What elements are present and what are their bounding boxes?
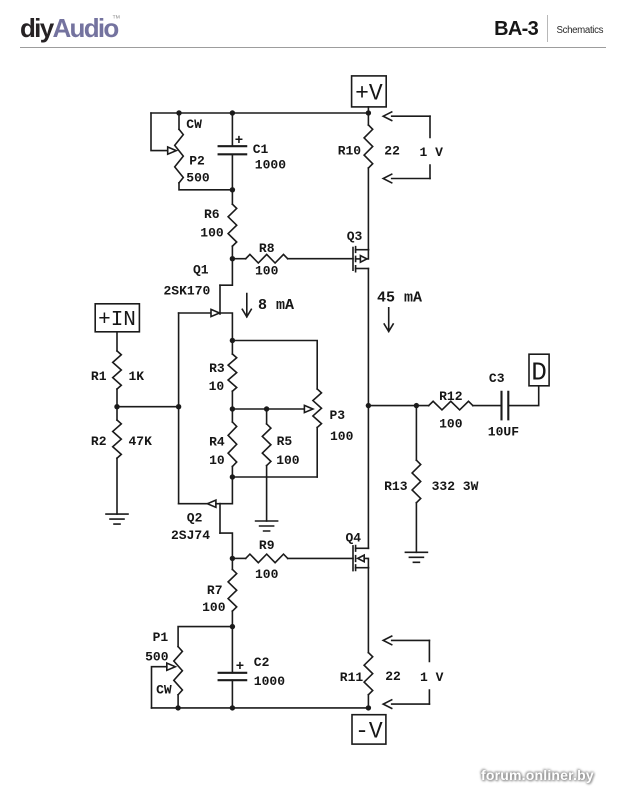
wire node to P3 top [232, 341, 317, 390]
P2 wiper arrow [168, 147, 177, 154]
label 1000 (C1) [255, 157, 286, 172]
resistor R3 [228, 341, 237, 410]
label CW (P2) [186, 117, 202, 132]
potentiometer P2 [175, 113, 233, 190]
svg-text:R6: R6 [204, 207, 220, 222]
label 100 (R12) [439, 417, 463, 432]
wire C3 to D box [508, 386, 538, 406]
label C2 [254, 655, 270, 670]
capacitor C2 [219, 627, 247, 708]
node R5 top junction [264, 406, 269, 411]
node top-rail / +V junction [366, 110, 371, 115]
svg-text:R2: R2 [91, 434, 107, 449]
node R6/R8/Q1 junction [230, 256, 235, 261]
resistor R8 [246, 254, 288, 263]
node C2 bottom junction [230, 705, 235, 710]
label C1 [253, 142, 269, 157]
wire Q1 drain [220, 259, 232, 286]
node R7/P1/C2 junction [230, 624, 235, 629]
svg-text:R9: R9 [259, 538, 275, 553]
label 1 V (R11) [420, 670, 444, 685]
svg-text:R4: R4 [209, 435, 225, 450]
label P3 [330, 408, 346, 423]
label 100 (R9) [255, 567, 279, 582]
label Q2 [187, 511, 203, 526]
svg-text:100: 100 [202, 600, 226, 615]
label 100 (P3) [330, 429, 354, 444]
label R1 [91, 369, 107, 384]
svg-text:100: 100 [255, 567, 279, 582]
label R7 [207, 583, 223, 598]
label R11 [340, 670, 364, 685]
current arrow 45 mA [384, 308, 393, 332]
svg-text:45 mA: 45 mA [377, 290, 422, 307]
svg-text:10: 10 [209, 379, 225, 394]
node top-rail / P2 CW junction [176, 110, 181, 115]
label R8 [259, 241, 275, 256]
wire P1 wiper [152, 667, 167, 708]
svg-text:C3: C3 [489, 371, 505, 386]
svg-text:C1: C1 [253, 142, 269, 157]
wire mid node to P3 wiper [232, 408, 304, 410]
label Q1 [193, 263, 209, 278]
label 332 3W (R13) [432, 479, 479, 494]
ground (R5) [256, 521, 278, 531]
svg-text:1 V: 1 V [420, 670, 444, 685]
node P1 bottom junction [175, 705, 180, 710]
P1 wiper arrow [167, 663, 176, 670]
svg-text:8 mA: 8 mA [258, 297, 294, 314]
node R1/R2 junction [114, 404, 119, 409]
label 22 (R11) [385, 669, 401, 684]
label C3 [489, 371, 505, 386]
label 2SJ74 [171, 528, 210, 543]
node output junction [366, 403, 371, 408]
wire top rail [151, 112, 368, 114]
label 10UF (C3) [488, 425, 519, 440]
svg-text:R3: R3 [209, 361, 225, 376]
resistor R13 [412, 406, 421, 553]
wire Q3 source to output node [367, 269, 369, 406]
header logo diyAudio [20, 13, 118, 44]
label 47K (R2) [129, 434, 153, 449]
node mid R3/R4 junction [230, 406, 235, 411]
svg-text:1 V: 1 V [420, 145, 444, 160]
svg-text:22: 22 [384, 144, 400, 159]
measure bracket R11 [428, 640, 430, 704]
svg-text:C2: C2 [254, 655, 270, 670]
node R13 junction [414, 403, 419, 408]
svg-text:+V: +V [355, 81, 383, 107]
label R13 [384, 479, 408, 494]
label Q3 [347, 229, 363, 244]
label 1K (R1) [129, 369, 145, 384]
potentiometer P3 [313, 389, 322, 477]
svg-text:Q1: Q1 [193, 263, 209, 278]
wire bottom rail [152, 707, 369, 709]
transistor Q3 [353, 247, 368, 272]
label 2SK170 [164, 284, 211, 299]
transistor Q1 [179, 285, 233, 340]
label 10 (R3) [209, 379, 225, 394]
label 100 (R5) [276, 453, 300, 468]
resistor R2 [113, 407, 122, 514]
svg-text:+: + [235, 133, 243, 149]
svg-text:Q3: Q3 [347, 229, 363, 244]
label R9 [259, 538, 275, 553]
header rule [20, 47, 606, 48]
wire +V stub [367, 107, 369, 113]
svg-text:P1: P1 [153, 630, 169, 645]
svg-text:2SJ74: 2SJ74 [171, 528, 210, 543]
label 45 mA [377, 290, 422, 307]
label 100 (R8) [255, 264, 279, 279]
svg-text:500: 500 [145, 649, 169, 664]
transistor Q4 [353, 546, 368, 571]
ground (R13) [405, 552, 427, 562]
label Q4 [346, 531, 362, 546]
header trademark sign [112, 13, 121, 23]
svg-text:1000: 1000 [254, 674, 285, 689]
wire R12 to C3 [473, 405, 502, 407]
power node box +V [352, 76, 387, 107]
header subtitle Schematics [557, 25, 604, 36]
wire Q2 source [220, 477, 232, 504]
svg-text:+: + [236, 659, 244, 675]
resistor R5 [262, 409, 271, 521]
node C1/P2/R6 junction [230, 187, 235, 192]
node top-rail / C1 junction [230, 110, 235, 115]
svg-text:Q2: Q2 [187, 511, 203, 526]
wire Q2 node to R9 [232, 557, 245, 559]
label 22 (R10) [384, 144, 400, 159]
wire R9 to Q4 gate [288, 557, 353, 559]
wire bottom of R4 to P3 [232, 476, 317, 478]
svg-text:47K: 47K [129, 434, 153, 449]
svg-text:100: 100 [276, 453, 300, 468]
current arrow 8 mA [242, 294, 251, 317]
svg-text:+IN: +IN [98, 309, 136, 332]
watermark forum.onliner.by [481, 767, 594, 783]
svg-text:D: D [531, 358, 547, 388]
node R4/P3 bottom junction [230, 474, 235, 479]
svg-text:332 3W: 332 3W [432, 479, 479, 494]
label 500 (P2) [186, 171, 210, 186]
node Q1 source / R3 junction [230, 338, 235, 343]
label CW (P1) [156, 682, 172, 697]
svg-text:100: 100 [255, 264, 279, 279]
P3 wiper arrow [304, 405, 313, 412]
svg-text:R12: R12 [439, 389, 463, 404]
wire output node to Q4 drain [367, 406, 369, 549]
svg-text:CW: CW [186, 117, 202, 132]
svg-text:10: 10 [209, 453, 225, 468]
svg-text:Q4: Q4 [346, 531, 362, 546]
wire output to R13 node [368, 405, 428, 407]
resistor R11 [364, 653, 373, 708]
label P2 [189, 154, 205, 169]
capacitor C1 [219, 113, 247, 190]
svg-text:1000: 1000 [255, 157, 286, 172]
svg-text:100: 100 [200, 226, 224, 241]
power node box -V [352, 715, 386, 745]
resistor R6 [228, 190, 237, 259]
ground (R2) [106, 514, 128, 524]
label R5 [277, 434, 293, 449]
wire R8 to Q3 gate [288, 258, 353, 260]
svg-text:22: 22 [385, 669, 401, 684]
resistor R1 [113, 351, 122, 407]
svg-text:100: 100 [439, 417, 463, 432]
capacitor C3 [502, 392, 509, 420]
svg-text:R7: R7 [207, 583, 223, 598]
resistor R9 [246, 554, 288, 563]
label 1 V (R10) [420, 145, 444, 160]
resistor R10 [364, 113, 373, 250]
node -V junction [366, 705, 371, 710]
label R12 [439, 389, 463, 404]
label 100 (R7) [202, 600, 226, 615]
wire node to P1 top [178, 627, 232, 647]
svg-text:100: 100 [330, 429, 354, 444]
label + (C2) [236, 659, 244, 675]
label 10 (R4) [209, 453, 225, 468]
svg-text:2SK170: 2SK170 [164, 284, 211, 299]
svg-text:CW: CW [156, 682, 172, 697]
svg-text:P2: P2 [189, 154, 205, 169]
label R2 [91, 434, 107, 449]
output node box D [529, 354, 549, 387]
transistor Q2 [179, 500, 233, 558]
wire input node to gate bus [117, 406, 179, 408]
label R4 [209, 435, 225, 450]
measure arrow R11 bottom [383, 700, 429, 709]
measure arrow R11 top [383, 636, 429, 645]
svg-text:R5: R5 [277, 434, 293, 449]
svg-text:500: 500 [186, 171, 210, 186]
measure arrow R10 top [383, 112, 430, 121]
label 8 mA [258, 297, 294, 314]
wire P2 wiper [151, 113, 168, 151]
label 500 (P1) [145, 649, 169, 664]
wire Q4 source to R11 [367, 568, 369, 653]
input node box +IN [95, 304, 139, 332]
node gate bus junction [176, 404, 181, 409]
svg-text:R1: R1 [91, 369, 107, 384]
label R6 [204, 207, 220, 222]
label 1000 (C2) [254, 674, 285, 689]
header divider [547, 15, 548, 42]
svg-text:-V: -V [355, 719, 383, 745]
node Q2 drain / R9 / R7 junction [230, 556, 235, 561]
label P1 [153, 630, 169, 645]
wire R6 node to R8 [232, 258, 245, 260]
potentiometer P1 [174, 647, 183, 708]
svg-text:R13: R13 [384, 479, 408, 494]
resistor R12 [429, 401, 473, 410]
label 100 (R6) [200, 226, 224, 241]
label + (C1) [235, 133, 243, 149]
svg-text:R11: R11 [340, 670, 364, 685]
header title BA-3 [494, 18, 538, 41]
svg-text:10UF: 10UF [488, 425, 519, 440]
measure arrow R10 bottom [383, 174, 430, 183]
svg-text:P3: P3 [330, 408, 346, 423]
label R10 [338, 144, 362, 159]
resistor R4 [228, 409, 237, 477]
svg-text:R10: R10 [338, 144, 362, 159]
wire +IN to R1 [116, 332, 118, 351]
svg-text:R8: R8 [259, 241, 275, 256]
svg-text:1K: 1K [129, 369, 145, 384]
resistor R7 [228, 558, 237, 626]
label R3 [209, 361, 225, 376]
wire gate bus Q1-Q2 [178, 313, 180, 504]
measure bracket R10 [429, 116, 431, 178]
